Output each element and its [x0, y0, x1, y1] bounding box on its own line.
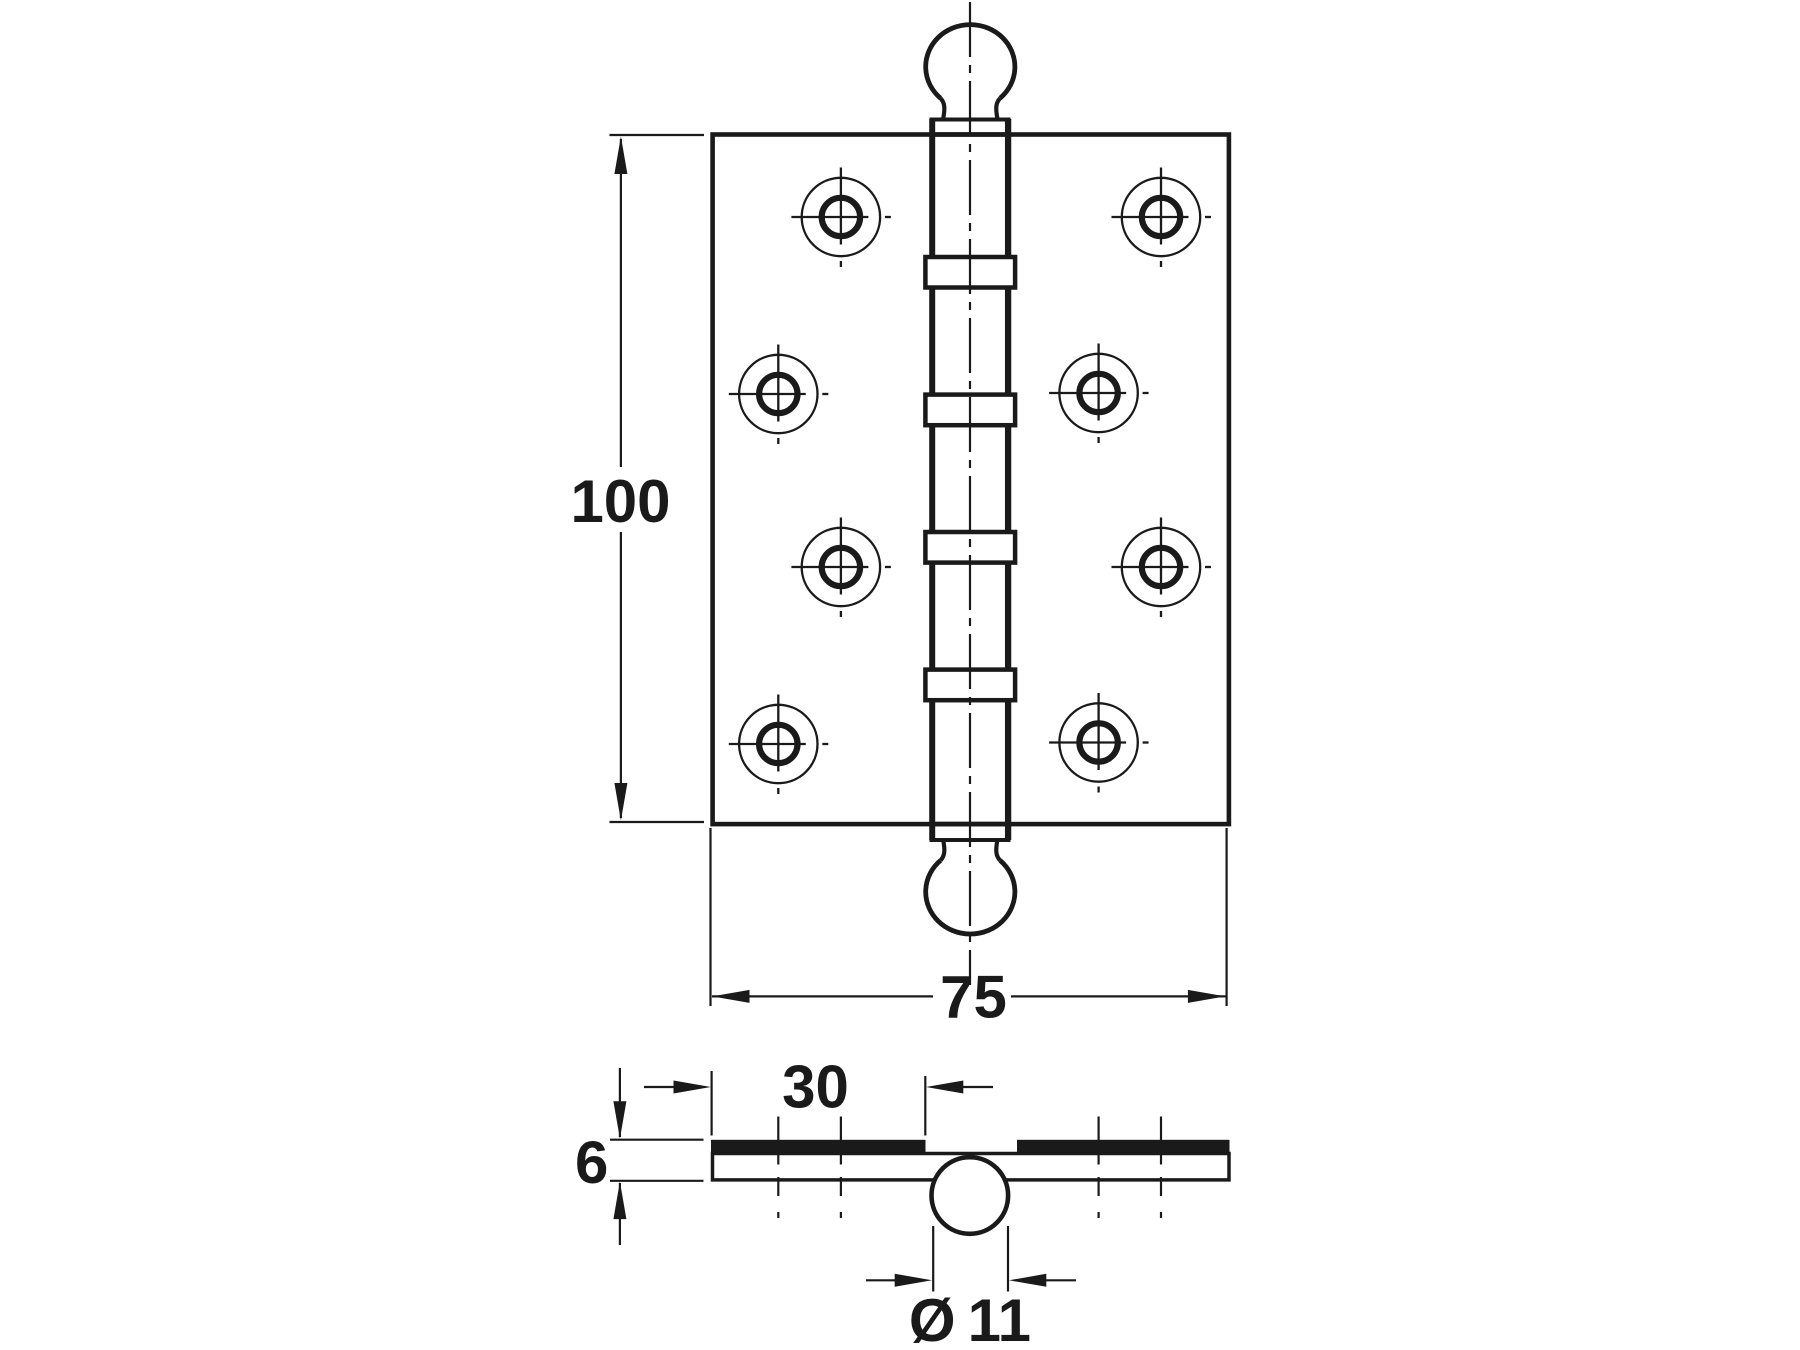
dim line above	[619, 1068, 621, 1137]
screw hole row3 right	[1112, 518, 1212, 618]
pin cap bottom edge	[930, 838, 1011, 842]
screw hole row1 right	[1112, 168, 1212, 268]
screw holes	[729, 168, 1211, 795]
dim line below	[619, 1183, 621, 1245]
screw hole row4 right	[1049, 693, 1149, 793]
right arrow head	[1009, 1274, 1046, 1287]
upper leaf right (filled section)	[1017, 1140, 1230, 1153]
screw hole row4 left	[729, 695, 829, 795]
upper leaf left (filled section)	[711, 1140, 926, 1153]
extension line top	[610, 134, 705, 136]
plate bottom edge over tube	[930, 822, 1010, 827]
extension line top	[610, 1139, 704, 1141]
center line col 841	[840, 1117, 842, 1219]
dimension 30	[644, 1053, 993, 1135]
hinge leaf plate (front view outline)	[713, 135, 1229, 825]
section view	[711, 1140, 1230, 1234]
lower leaf outline (section)	[713, 1154, 1230, 1180]
extension line right	[1007, 1226, 1009, 1292]
arrow right	[1188, 990, 1225, 1003]
center line col 1161	[1160, 1117, 1162, 1219]
section projection center lines	[778, 1117, 1161, 1219]
arrow down	[614, 783, 627, 821]
knuckle collar 1	[925, 257, 1015, 288]
left arrow head	[674, 1081, 711, 1094]
dimension line left part	[712, 995, 933, 997]
dimension 100	[570, 135, 704, 822]
top finial neck right	[996, 98, 1000, 118]
arrow down to top line	[613, 1101, 626, 1139]
right arrow tail	[963, 1086, 993, 1088]
screw hole row3 left	[791, 518, 891, 618]
arrow up to bottom line	[613, 1182, 626, 1220]
plate top edge over tube	[930, 132, 1010, 137]
extension line right	[924, 1076, 926, 1136]
dimension 75	[711, 828, 1227, 1030]
arrow up	[614, 137, 627, 175]
bottom finial ball	[926, 860, 1015, 934]
center line col 1099	[1097, 1117, 1099, 1219]
knuckle collar 4	[925, 670, 1015, 701]
dimension line lower	[620, 532, 622, 818]
screw hole row2 left	[729, 345, 829, 445]
screw hole row2 right	[1049, 344, 1149, 444]
right arrow tail	[1046, 1279, 1076, 1281]
bottom finial neck right	[996, 840, 1000, 860]
svg-text:Ø: Ø	[909, 1287, 956, 1350]
bottom finial neck left	[941, 840, 945, 860]
left arrow head	[895, 1274, 932, 1287]
extension line bottom	[610, 1180, 704, 1182]
extension line left	[710, 1071, 712, 1136]
left arrow tail	[644, 1086, 676, 1088]
left arrow tail	[866, 1279, 896, 1281]
right arrow head	[926, 1081, 963, 1094]
knuckle collar 3	[925, 532, 1015, 563]
pin tube left side	[929, 119, 935, 840]
extension line right	[1225, 828, 1227, 1006]
svg-text:11: 11	[968, 1287, 1031, 1350]
svg-text:75: 75	[940, 963, 1007, 1030]
screw hole row1 left	[791, 168, 891, 268]
dimension line upper	[620, 139, 622, 467]
extension line left	[932, 1226, 934, 1292]
knuckle collar 2	[925, 395, 1015, 426]
pin cap top edge	[930, 118, 1011, 122]
svg-text:30: 30	[782, 1053, 849, 1120]
arrow left	[712, 990, 749, 1003]
svg-text:100: 100	[570, 468, 670, 535]
pin center line (vertical dash-dot)	[969, 2, 971, 985]
extension line left	[709, 828, 711, 1006]
center line col 778	[777, 1117, 779, 1219]
extension line bottom	[610, 821, 705, 823]
barrel circle (section)	[932, 1157, 1009, 1234]
dimension 6	[575, 1068, 703, 1245]
svg-text:6: 6	[575, 1129, 608, 1196]
dimension diameter 11	[866, 1226, 1076, 1350]
top finial ball	[926, 25, 1015, 99]
top finial neck left	[941, 98, 945, 118]
dimension line right part	[1011, 995, 1226, 997]
pin tube right side	[1005, 119, 1011, 840]
